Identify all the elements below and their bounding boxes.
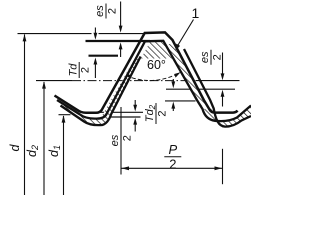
angle arc dashed xyxy=(126,73,180,81)
svg-text:d: d xyxy=(8,144,22,152)
label es/2 top (rotated fraction) xyxy=(94,4,118,19)
hatch band right flank (between upper limit and basic) xyxy=(165,44,207,106)
svg-text:2: 2 xyxy=(121,135,133,141)
hatch right tooth band xyxy=(237,106,251,121)
svg-text:es: es xyxy=(94,5,106,17)
svg-text:2: 2 xyxy=(107,8,119,14)
upper-limit profile (thick) xyxy=(57,41,251,121)
dimension d2: line and arrow xyxy=(43,82,45,195)
wire: pitch line dash-dot xyxy=(72,80,196,82)
dimension es/2 right: shaft and arrows xyxy=(222,53,224,76)
dimension es/2 bottom-left arrows xyxy=(134,100,136,106)
svg-text:2: 2 xyxy=(212,54,224,60)
lower-limit contour left (flank + root arc) xyxy=(61,57,141,126)
basic profile 1 (thick) xyxy=(55,32,238,112)
label Td2/2 (rotated fraction) xyxy=(144,103,168,124)
wire: upper-limit pitch line R2 xyxy=(166,88,235,90)
wire: pitch ext solid left xyxy=(36,80,72,82)
svg-text:2: 2 xyxy=(157,110,169,116)
hatch left root band xyxy=(85,114,111,126)
wire: lower-limit pitch line B xyxy=(165,100,196,102)
hatch band left flank (between upper and lower limit) xyxy=(101,57,141,118)
wire: root flat extension C1 xyxy=(97,111,143,113)
hatch left tooth band xyxy=(57,101,88,125)
svg-text:60°: 60° xyxy=(147,58,166,72)
svg-text:2: 2 xyxy=(80,67,92,73)
dimension Td/2: shafts and arrows xyxy=(94,28,96,35)
dimension d1: line and arrow xyxy=(63,116,65,195)
dimension P/2 xyxy=(120,107,122,175)
label Td/2 (rotated fraction) xyxy=(67,62,91,78)
lower-limit contour right (flank + root arc) xyxy=(184,49,251,127)
label P/2 (upright fraction) xyxy=(164,142,181,172)
wire: pitch ext right R1 xyxy=(196,80,240,82)
svg-text:1: 1 xyxy=(192,5,200,21)
label es/2 right (rotated fraction) xyxy=(199,50,223,65)
svg-text:2: 2 xyxy=(169,156,176,171)
hatch crest zone xyxy=(141,42,174,59)
dimension es/2 top: shafts and arrows xyxy=(120,2,122,28)
svg-text:Td: Td xyxy=(67,63,79,77)
wire: d1 extension line xyxy=(59,114,71,116)
svg-text:es: es xyxy=(199,51,211,63)
svg-text:es: es xyxy=(109,134,121,146)
wire: crest extension line (d level) xyxy=(18,33,92,35)
node: upper-limit crest extension line xyxy=(86,40,151,42)
dimension Td2/2: shaft and arrows xyxy=(172,79,174,83)
hatch right root band xyxy=(203,109,242,127)
wire: root line C2 xyxy=(103,116,141,118)
svg-text:P: P xyxy=(168,142,177,157)
dimension d: line and arrow xyxy=(24,34,26,195)
label es/2 bottom-left (rotated fraction) xyxy=(109,134,133,146)
node: lower-limit crest line xyxy=(89,55,119,57)
